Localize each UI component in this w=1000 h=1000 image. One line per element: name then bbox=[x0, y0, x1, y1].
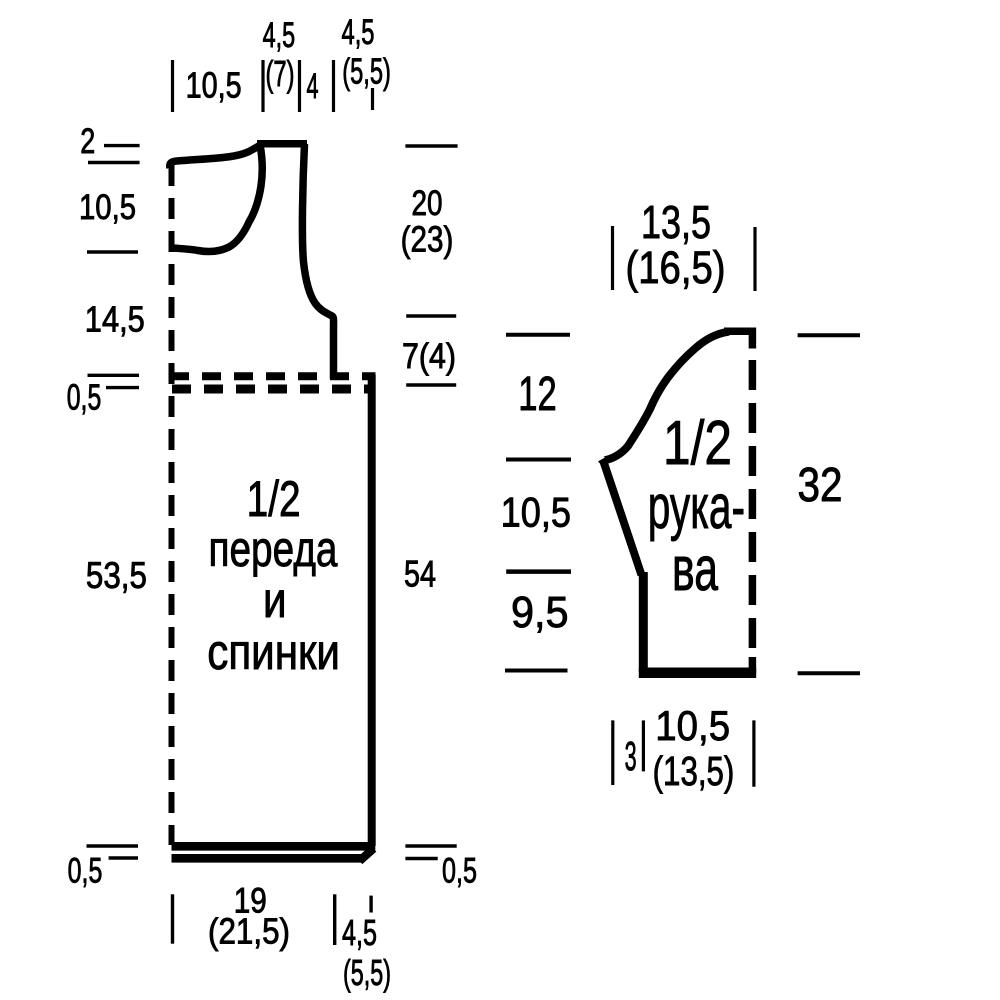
bottom tick 3 (short) bbox=[369, 896, 372, 913]
dash right hem upper bbox=[405, 844, 456, 847]
sleeve bottom corner solid bbox=[749, 657, 757, 673]
chest dashed line lower bbox=[172, 385, 376, 394]
dash right armhole level bbox=[406, 314, 456, 317]
dash hem upper left bbox=[87, 844, 139, 847]
sleeve underarm diagonal bbox=[603, 460, 642, 576]
hem upper line bbox=[172, 842, 376, 851]
front neck curve bbox=[173, 145, 262, 251]
dash right of 2 bbox=[104, 144, 140, 147]
dash front neck level bbox=[87, 250, 138, 253]
svg-text:4: 4 bbox=[307, 67, 319, 106]
svg-text:20: 20 bbox=[412, 184, 443, 223]
svg-text:9,5: 9,5 bbox=[511, 588, 569, 637]
shoulder top edge bbox=[257, 140, 307, 148]
svg-text:12: 12 bbox=[518, 368, 557, 421]
svg-text:ва: ва bbox=[672, 535, 718, 604]
sleeve fold line (dashed) bbox=[749, 360, 757, 660]
bottom tick 2 bbox=[333, 894, 336, 945]
svg-text:32: 32 bbox=[798, 459, 843, 512]
fold line (dashed center line) bbox=[169, 165, 175, 845]
top ruler tick 2 bbox=[261, 60, 264, 112]
sleeve cap curve bbox=[602, 332, 730, 461]
svg-text:2: 2 bbox=[80, 122, 95, 161]
svg-text:(13,5): (13,5) bbox=[653, 748, 735, 794]
dash right hem lower bbox=[405, 857, 437, 860]
svg-text:54: 54 bbox=[404, 554, 436, 595]
hem end diagonal bbox=[360, 849, 374, 862]
dash sleeve top left bbox=[506, 333, 570, 337]
sleeve cuff edge bbox=[639, 572, 648, 672]
svg-text:и: и bbox=[263, 572, 287, 628]
dash right chest level bbox=[406, 383, 456, 386]
svg-text:10,5: 10,5 bbox=[79, 188, 136, 227]
sleeve bottom edge bbox=[639, 668, 756, 679]
svg-text:13,5: 13,5 bbox=[641, 196, 711, 248]
side seam bbox=[368, 375, 376, 846]
hem lower line bbox=[172, 854, 362, 863]
svg-text:4,5: 4,5 bbox=[263, 16, 296, 55]
top ruler tick 5 (short) bbox=[371, 88, 374, 110]
armhole edge bbox=[302, 144, 333, 379]
svg-text:14,5: 14,5 bbox=[85, 299, 145, 340]
svg-text:7(4): 7(4) bbox=[402, 337, 456, 376]
svg-text:10,5: 10,5 bbox=[501, 489, 571, 536]
dash sleeve bottom right bbox=[798, 671, 860, 675]
chest dashed line upper bbox=[170, 372, 376, 380]
top ruler tick 3 bbox=[298, 60, 301, 112]
svg-text:1/2: 1/2 bbox=[247, 471, 301, 527]
svg-text:53,5: 53,5 bbox=[86, 555, 147, 596]
svg-text:(16,5): (16,5) bbox=[626, 242, 726, 293]
top ruler tick 1 bbox=[171, 60, 174, 112]
sleeve bottom tick 2 bbox=[642, 720, 645, 771]
svg-text:0,5: 0,5 bbox=[67, 377, 102, 418]
svg-text:10,5: 10,5 bbox=[186, 65, 242, 106]
svg-text:0,5: 0,5 bbox=[68, 852, 103, 891]
top ruler tick 4 bbox=[332, 60, 335, 112]
dash chest upper left bbox=[88, 374, 140, 377]
svg-text:4,5: 4,5 bbox=[342, 13, 375, 52]
dash chest lower left bbox=[106, 386, 139, 389]
svg-text:10,5: 10,5 bbox=[655, 702, 730, 749]
svg-text:(5,5): (5,5) bbox=[343, 952, 391, 993]
sleeve bottom tick 1 bbox=[611, 720, 614, 785]
svg-text:4,5: 4,5 bbox=[342, 912, 377, 953]
svg-text:1/2: 1/2 bbox=[663, 409, 732, 478]
svg-text:переда: переда bbox=[209, 521, 338, 577]
sleeve top tick right bbox=[753, 227, 756, 291]
dash sleeve left mid2 bbox=[506, 569, 571, 574]
svg-text:(21,5): (21,5) bbox=[208, 911, 290, 952]
back neck curve bbox=[170, 145, 261, 169]
dash sleeve bottom left bbox=[505, 669, 568, 673]
svg-text:(7): (7) bbox=[266, 53, 295, 94]
svg-text:(23): (23) bbox=[401, 219, 454, 260]
svg-text:рука-: рука- bbox=[648, 473, 745, 542]
bottom tick 1 bbox=[171, 894, 174, 943]
dash back neck level bbox=[88, 161, 140, 164]
sleeve bottom tick 3 bbox=[752, 720, 755, 786]
dash right shoulder level bbox=[405, 144, 457, 147]
sleeve top tick left bbox=[611, 226, 614, 290]
svg-text:спинки: спинки bbox=[207, 624, 340, 680]
svg-text:0,5: 0,5 bbox=[442, 852, 477, 891]
svg-text:3: 3 bbox=[625, 733, 637, 779]
sleeve top corner solid bbox=[724, 331, 752, 348]
dash sleeve left mid1 bbox=[506, 458, 571, 462]
dash sleeve top right bbox=[798, 333, 860, 337]
dash hem lower left bbox=[109, 856, 138, 859]
svg-text:(5,5): (5,5) bbox=[342, 51, 391, 92]
